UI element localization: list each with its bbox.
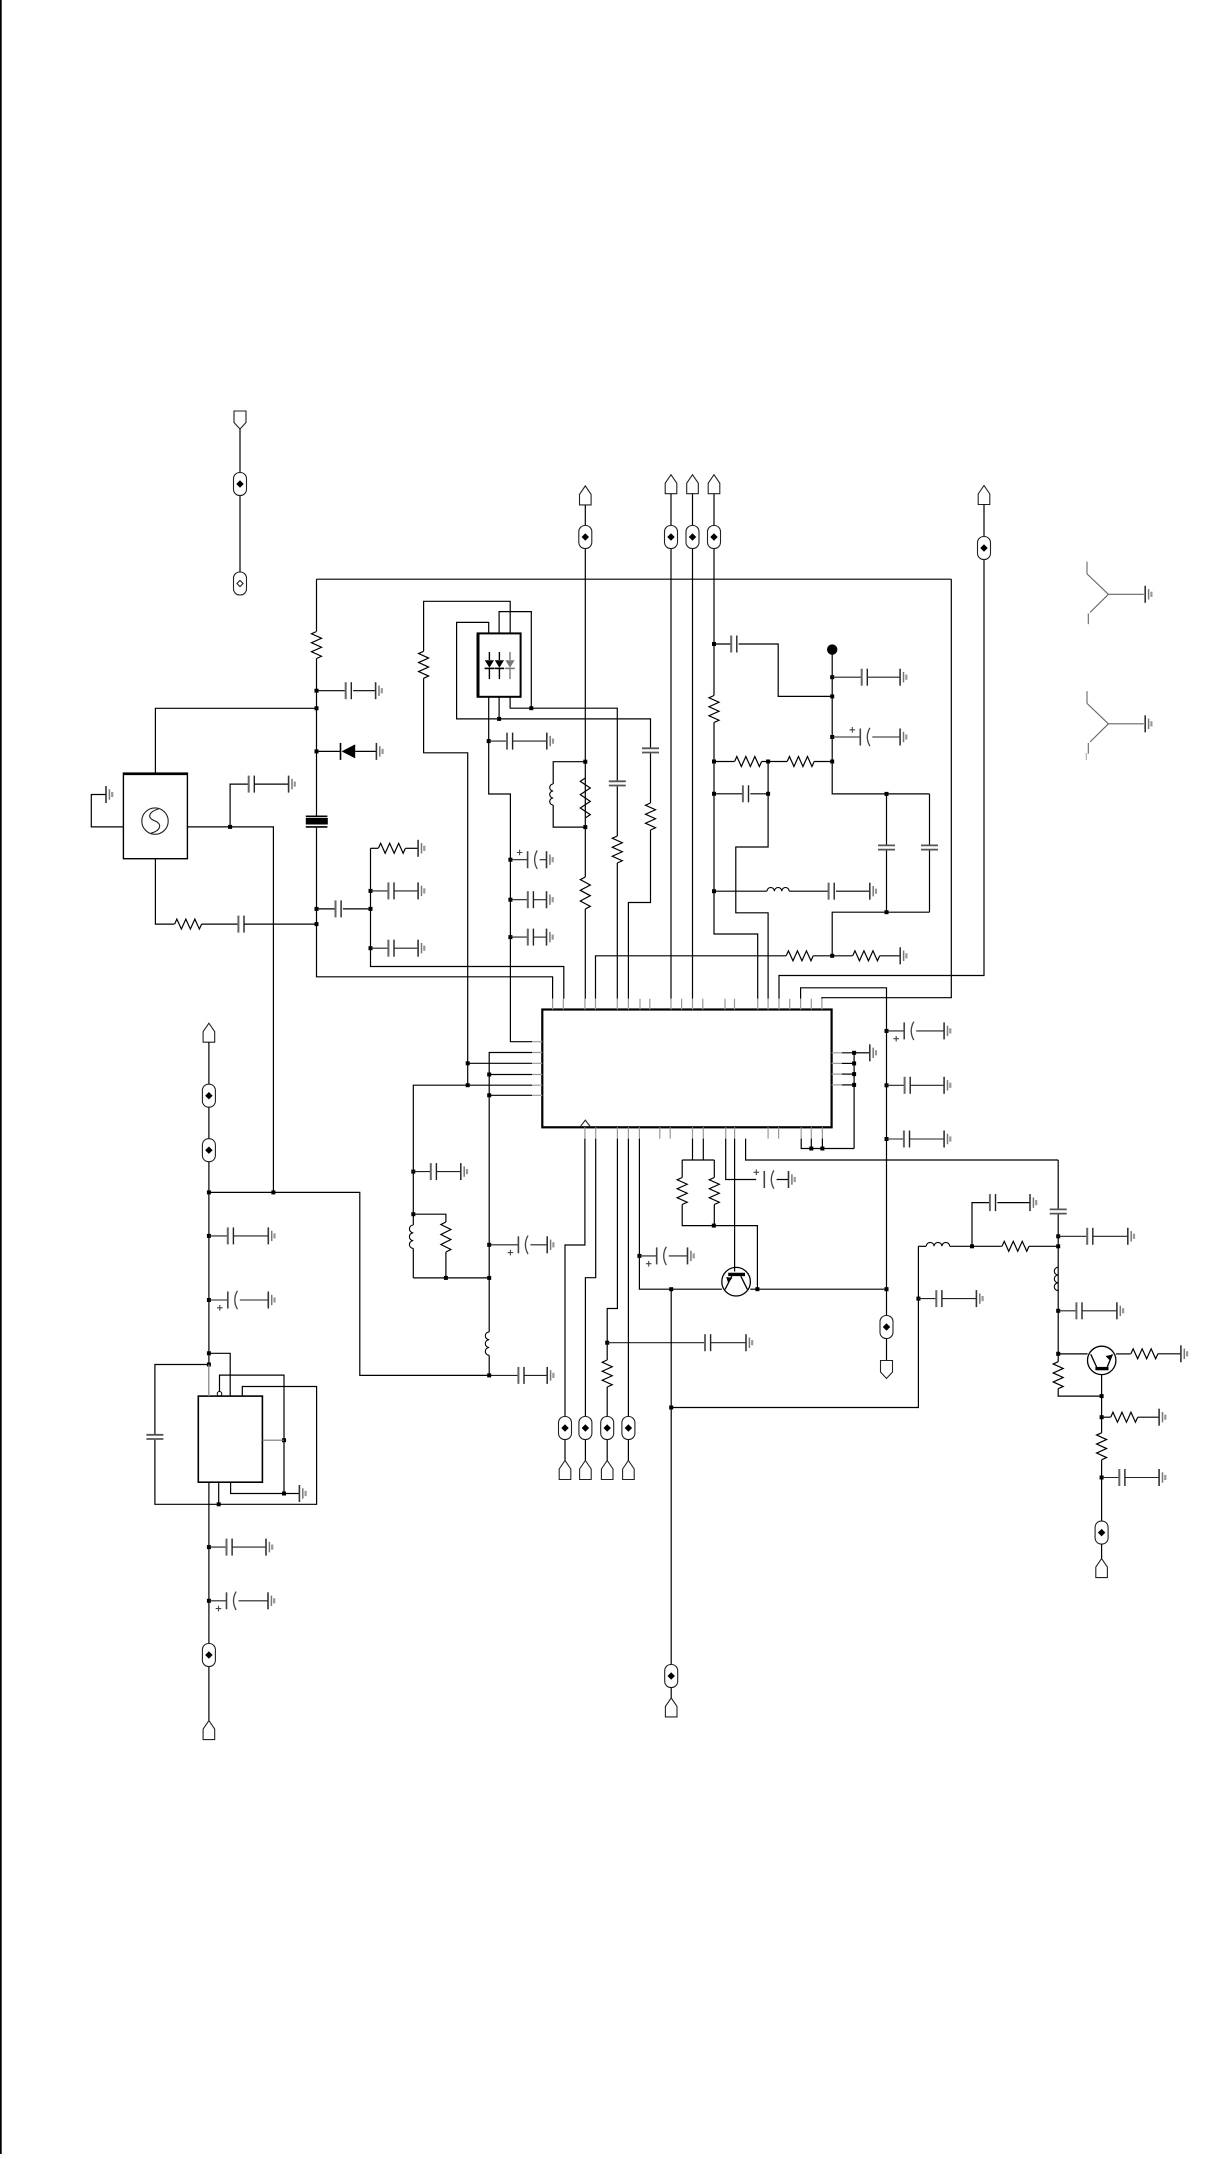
resistor R5 on W1 (612, 836, 622, 863)
wire P5 to TP6 (713, 494, 715, 526)
wire diode line2 top route (499, 612, 531, 709)
wire IC pin x=628.4 to port chain (627, 1139, 629, 1417)
page left border line (0, 0, 2, 2154)
test point TP5 (686, 526, 699, 549)
resistor R6 on W2 (646, 803, 656, 830)
wire J1 right and down to left chain bus (230, 827, 273, 1193)
capacitor C11 on W1 (horizontal plates) (609, 781, 626, 785)
bus wire from IC pin x=745.6 to x=1058.2 (746, 1139, 1059, 1160)
port P7 (pointing down) (881, 1361, 893, 1379)
chain C31 (1102, 1477, 1120, 1479)
wire net A to IC pin y=1085.2 (468, 1084, 532, 1086)
resistor R11 at y=761.5 (787, 757, 814, 767)
resistor R7 in loop (580, 778, 590, 818)
port P3 x=671 (665, 475, 677, 494)
test point TP16 (202, 1139, 215, 1162)
capacitor C14 at y=793.8 (714, 793, 743, 795)
ground G3 (376, 682, 382, 699)
wire Q2 emitter down (1101, 1374, 1103, 1433)
wire branch x=370.5 down to IC pin 563.8 (371, 848, 564, 999)
diode D3 inside pack (498, 652, 500, 660)
ground G12 (870, 883, 876, 900)
ground G4 (376, 743, 382, 760)
wire TP5 to IC pin x=692.5 (692, 549, 694, 999)
wire R10 to R11 (762, 761, 787, 763)
wire line1 net down to x=510.4 column (489, 741, 532, 1042)
wire transistor emitter row to x=886.5 (757, 1288, 886, 1290)
port P2 x=585.3 (580, 486, 592, 505)
wire spine below bead (317, 828, 553, 999)
wire IC pin x=703.3 down to bridge (702, 1139, 704, 1160)
IC U1 top pin stubs (553, 999, 822, 1010)
capacitor C2 (237, 916, 239, 933)
wire spine top to resistor R2 (316, 579, 318, 631)
wire IC pin x=692.5 down to bridge (692, 1139, 694, 1160)
loop with inductor L1 (553, 762, 585, 784)
inverter bubble on U4 (217, 1392, 222, 1397)
resistor R9 on x=714 (709, 696, 719, 723)
AC source circle with sine curve (142, 808, 168, 834)
wire U4 bottom pin x=218.7 (218, 1482, 220, 1504)
resistor R10 at y=761.5 (714, 761, 734, 763)
wire Q2 collector to resistor R19 (1116, 1353, 1131, 1355)
wire U4 right pin (262, 1439, 284, 1441)
wire J1 up to capacitor C1 (230, 784, 248, 827)
test point TP15 (202, 1084, 215, 1107)
resistor R3 to ground G5 at y=848.3 (371, 847, 379, 849)
test point TP7 (978, 537, 991, 560)
port P4 x=692.5 (687, 475, 699, 494)
port P1 (top-left, pointing down) (234, 411, 246, 429)
wire TP4 to IC pin x=671.5 (670, 549, 672, 999)
wire bus corner down x=1058.2 (1057, 1160, 1059, 1209)
wire TP10 to port P9 (584, 1440, 586, 1461)
diode D4 inside pack (509, 652, 511, 660)
wire chain to right bus at y=1192.4 (209, 1192, 489, 1375)
wire to ground G32 (284, 1493, 299, 1495)
wire R11 to node column (814, 761, 832, 763)
capacitor C4 between spine and branch at y=908.9 (317, 908, 336, 910)
wire TP8 to port P7 (886, 1339, 888, 1361)
port P8 (559, 1461, 571, 1480)
capacitor C26 (vertical) on x=1058.2 (1050, 1209, 1067, 1213)
resistor R21 on x=1101.6 (1097, 1433, 1107, 1460)
wire R4 top to diode pack line 3 (424, 601, 511, 651)
antenna symbol A2 (1086, 691, 1144, 760)
wire x=972 up to capacitor C28 (972, 1203, 990, 1247)
test point TP9 (559, 1417, 572, 1440)
wire U4 bottom x=208.9 down the chain (208, 1482, 210, 1643)
wire R8 to IC pin x=584.9 (584, 909, 586, 999)
wire IC pin x=595.7 to port chain x=585.4 (585, 1139, 595, 1417)
ground G24 (1030, 1194, 1036, 1211)
chain C30 (1058, 1310, 1076, 1312)
IC U1 clock pin triangle (580, 1120, 591, 1127)
ground G32 (299, 1485, 305, 1502)
wire P4 to TP5 (692, 494, 694, 526)
IC U1 body (542, 1010, 831, 1128)
resistor R1 (175, 919, 202, 929)
wire TP12 to port P11 (627, 1440, 629, 1461)
wire Q2 base (1058, 1353, 1087, 1355)
wire x=918.4 down to long wire (671, 1246, 918, 1407)
wire AC box left pin to G1 (91, 795, 123, 827)
port P12 (665, 1698, 677, 1717)
ground G35 for antenna A1 (1145, 586, 1151, 603)
wire R4 bottom down to IC left pins (net A) (424, 678, 468, 1085)
antenna symbol A1 (1087, 562, 1144, 625)
wire left branch x=154.9 with capacitor C34 (155, 1365, 209, 1435)
wire bubble route to U4 right pin (220, 1375, 285, 1493)
wire C2 to spine junction (244, 923, 317, 925)
wire IC pin x=734.6 to transistor Q1 base (734, 1139, 736, 1272)
chain capacitor C3 to ground G3 at y=690.7 (317, 690, 346, 692)
resistor R18 on x=1058.2 (1053, 1362, 1063, 1389)
test point TP14 (1095, 1521, 1108, 1544)
wire to regulator top pin x=230.2 (209, 1353, 230, 1396)
wire TP16 down the chain (208, 1162, 210, 1396)
chain C17 (832, 736, 860, 738)
ground G1 (left of AC source) (106, 786, 112, 803)
wire P2 to TP3 (584, 505, 586, 526)
test point TP12 (622, 1417, 635, 1440)
test point TP2 (open diamond) (234, 572, 247, 595)
wire tie bar to IC pin y=1095.3 (489, 1094, 532, 1096)
ferrite bead FB1 on spine (306, 815, 328, 817)
wire IC pin x=800.6 to x=886.5 column (801, 988, 887, 1289)
port P14 x=208.9 (203, 1023, 215, 1042)
IC U1 right pin stubs (832, 1053, 842, 1085)
wire W2 to IC pin x=628.4 (628, 830, 650, 999)
chain C16 (832, 676, 862, 678)
inductor L4 on x=1058.2 (1054, 1267, 1058, 1290)
wire diode line2 bottom stub (498, 697, 500, 719)
wire spine R2 down through junctions (316, 659, 318, 816)
ground G19 (870, 1044, 876, 1061)
chain C21 (887, 1084, 905, 1086)
wire AC box top to spine node A (155, 708, 316, 773)
port P11 (623, 1461, 635, 1480)
wire IC pin x=617.4 to resistor R14 (607, 1139, 617, 1360)
chain C7 (489, 740, 507, 742)
chain C33 (209, 1299, 228, 1301)
chain C22 (887, 1138, 904, 1140)
port P5 x=714 (708, 475, 720, 494)
capacitor C28 to ground G24 (989, 1194, 991, 1211)
diode D2 inside pack (488, 652, 490, 660)
wire R21 to capacitor junction (1101, 1460, 1103, 1521)
wire W1 to IC pin x=617.3 (616, 863, 618, 999)
wire L5/R22 bottom to tie column (413, 1277, 489, 1279)
resistor R16 hanging from bridge (713, 1160, 715, 1178)
port P15 (203, 1721, 215, 1740)
diode pack U3 box (478, 633, 521, 696)
wire TP15 to TP16 (208, 1107, 210, 1139)
test point TP8 x=886.5 (885, 1287, 889, 1291)
wire TP11 to port P10 (606, 1440, 608, 1461)
chain C9 (510, 899, 527, 901)
inductor L3 chain at y=1246.3 (918, 1245, 926, 1247)
test point TP1 (234, 473, 247, 496)
resistor R17 at y=1246.3 (972, 1245, 1002, 1247)
port P6 x=984 (978, 486, 990, 505)
port P10 (601, 1461, 613, 1480)
transistor Q1 (PNP) (722, 1267, 751, 1296)
wire TP1 to TP2 (239, 496, 241, 573)
wire R1 to capacitor C2 (202, 923, 239, 925)
wire IC right pins tie bar to ground G19 (842, 1053, 854, 1149)
wire R15/R16 bottom to transistor collector (714, 1226, 758, 1290)
inductor L6 on tie column (485, 1332, 489, 1355)
wire IC pin y=1052.5 tie bar (left) (489, 1053, 532, 1332)
inductor L2 chain at y=891.2 (714, 890, 767, 892)
wire R14 to TP11 (606, 1387, 608, 1417)
wire x=671.2 down to TP13 (670, 1289, 672, 1664)
wire tie bar to IC pin y=1074.5 (489, 1074, 532, 1076)
test point TP13 (665, 1665, 678, 1688)
wire diode line1 bottom (488, 697, 490, 742)
chain C10 (510, 936, 527, 938)
wire TP13 to port P12 (670, 1688, 672, 1698)
IC U1 left pin stubs (532, 1042, 542, 1096)
wire net A to IC pin y=1063.3 (468, 1062, 532, 1064)
capacitor C18 (vertical) x=886.5 (886, 794, 888, 845)
wire from G19 junction (854, 1052, 869, 1054)
wire U4 bottom pin x=230.6 (231, 1482, 284, 1493)
chain C38 (489, 1244, 518, 1246)
wire IC pin x=595.5 with resistors R12 R13 to ground G15 (596, 956, 787, 999)
regulator U4 box (198, 1396, 262, 1482)
capacitor C19 (vertical) x=929.5 (929, 794, 931, 845)
capacitor C34 (vertical) (146, 1435, 163, 1439)
test point TP6 (708, 526, 721, 549)
chain C24 (639, 1255, 656, 1257)
chain C32 (209, 1235, 228, 1237)
wire net A left branch down (413, 1085, 467, 1214)
wire AC box bottom to resistor R1 (155, 859, 174, 924)
test point TP17 (202, 1644, 215, 1667)
wire IC pin x=584.9 to port chain x=565 (565, 1139, 585, 1417)
chain C5 (371, 890, 389, 892)
ground G2 (289, 776, 295, 793)
capacitor C1 (248, 776, 250, 793)
resistor R4 (419, 651, 429, 678)
node N1 (big dot) (827, 644, 837, 654)
IC U1 bottom pin stubs (585, 1127, 823, 1138)
capacitor C15 at y=891.2 (828, 883, 830, 900)
wire R18 bottom to Q2 emitter (1058, 1389, 1101, 1396)
chain C37 (413, 1171, 431, 1173)
wire TP14 to port P13 (1101, 1544, 1103, 1559)
AC source U2 box (123, 773, 187, 859)
resistor R2 (312, 632, 322, 659)
ground G36 for antenna A2 (1145, 715, 1151, 732)
transistor Q2 (NPN) (1088, 1346, 1116, 1374)
wire U4 top pin x=208.9 (gray) (208, 1365, 210, 1397)
wire TP7 down to IC pin x=779 (779, 560, 984, 999)
capacitor C13 at y=644 (714, 643, 731, 645)
ground G15 (900, 947, 906, 964)
chain C8 (510, 859, 527, 861)
resistor R19 to ground G27 (1131, 1349, 1158, 1359)
wire Z route x=768.1 to IC pin (736, 762, 768, 999)
wire IC pin x=725.7 to polarized capacitor C25 (726, 1139, 757, 1180)
shield box top edge (317, 578, 952, 580)
chain C6 (371, 947, 389, 949)
wire IC bottom pins x=801.2,811.3,822.4 common (801, 1139, 854, 1149)
chain C23 (607, 1342, 705, 1344)
ground G5 (418, 840, 424, 857)
wire node column down (832, 650, 929, 794)
inductor L5 parallel resistor R22 (411, 1212, 415, 1216)
resistor R8 below loop (580, 877, 590, 909)
wire C1 to ground G2 (254, 783, 288, 785)
chain C27 (1058, 1235, 1087, 1237)
diode D1 with plate and ground G4 at y=751.4 (317, 750, 340, 752)
wire TP17 to port P15 (208, 1667, 210, 1721)
wire P1 to TP1 (239, 429, 241, 473)
wire P14 to TP15 (208, 1042, 210, 1084)
wire IC pin x=639.4 down (639, 1139, 722, 1290)
polarized capacitor C25 to ground G22 (763, 1171, 765, 1188)
test point TP4 (665, 526, 678, 549)
wire TP6 down x=714 (713, 549, 715, 696)
wire diode line3 bottom, W1 route to IC (510, 697, 617, 782)
port P9 (580, 1461, 592, 1480)
wire TP3 down to loop junction (584, 549, 586, 878)
wire IC pin x=821.9 to shield box right edge (822, 579, 951, 999)
test point TP10 (579, 1417, 592, 1440)
port P13 (1096, 1559, 1108, 1578)
resistor R14 (602, 1360, 612, 1387)
ground G27 (1181, 1345, 1187, 1362)
bridge wire y=1160.0 (682, 1159, 714, 1161)
wire diode line1 top route (457, 622, 651, 748)
wire C13 right to node column (739, 644, 833, 696)
wire x=714 resistor to corner to IC pin x=757.7 (714, 723, 758, 999)
chain C39 (489, 1374, 518, 1376)
resistor R15 hanging from bridge (681, 1160, 683, 1178)
chain C35 (209, 1546, 227, 1548)
chain C20 (887, 1030, 905, 1032)
resistor R20 to ground G28 at y=1417.2 (1102, 1416, 1111, 1418)
test point TP3 (579, 526, 592, 549)
wire AC box right to junction J1 (187, 826, 230, 828)
chain C29 (918, 1298, 936, 1300)
ground G22 (789, 1171, 795, 1188)
wire TP9 to port P8 (564, 1440, 566, 1461)
capacitor C12 on W2 (horizontal plates) (642, 748, 659, 752)
wire P3 to TP4 (670, 494, 672, 526)
wire P6 to TP7 (983, 505, 985, 537)
test point TP11 (601, 1417, 614, 1440)
chain C36 (209, 1600, 227, 1602)
wire bottom of C18/C19 loop (832, 912, 929, 956)
